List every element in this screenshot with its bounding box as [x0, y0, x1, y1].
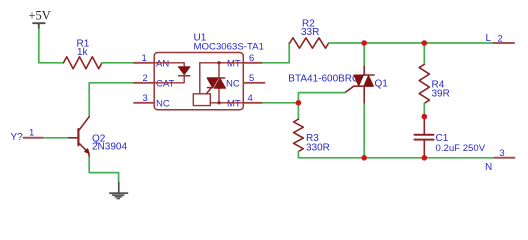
U1 internal left vertical to ZC box [199, 63, 201, 94]
svg-text:AN: AN [156, 58, 169, 69]
node L junction at R4 [422, 40, 428, 46]
wire Q1 MT1 to bottom rail [363, 104, 365, 158]
svg-text:1: 1 [29, 128, 34, 139]
transistor Q2 [69, 117, 89, 158]
wire top rail to R4 [423, 43, 425, 64]
svg-text:3: 3 [499, 148, 504, 159]
wire junction to R3 [297, 103, 299, 119]
svg-text:1k: 1k [77, 47, 89, 58]
U1 internal junction bottom [217, 101, 220, 104]
svg-text:33R: 33R [301, 27, 319, 38]
svg-text:2: 2 [143, 73, 148, 84]
wire R2 to L port (top rail) [329, 42, 494, 44]
wire U1 pin 2 to Q2 collector [89, 83, 134, 117]
resistor R3 [294, 119, 304, 151]
zero-cross box inside U1 [193, 94, 210, 106]
resistor R1 [64, 57, 103, 69]
node N junction at Q1 [361, 155, 367, 161]
wire Y? to Q2 base [43, 137, 69, 139]
port Y? [24, 137, 44, 139]
node junction R4/C1 [422, 114, 428, 120]
svg-text:MT: MT [227, 58, 241, 69]
svg-text:330R: 330R [306, 142, 330, 153]
svg-text:5: 5 [249, 73, 254, 84]
U1 internal junction top [217, 61, 220, 64]
pin 3 stub [134, 102, 154, 104]
wire U1 pin4 to junction [263, 102, 299, 104]
svg-text:3: 3 [143, 93, 148, 104]
pin 4 stub [243, 102, 262, 104]
triac inside U1 [206, 63, 225, 103]
wire top rail to Q1 MT2 [363, 43, 365, 66]
wire R3 to bottom rail [298, 151, 363, 157]
svg-text:39R: 39R [432, 89, 450, 100]
svg-text:6: 6 [249, 53, 254, 64]
port N [494, 157, 514, 159]
port L [493, 42, 514, 44]
pin 6 stub [243, 62, 262, 64]
svg-text:4: 4 [248, 93, 253, 104]
bottom rail wire [363, 157, 494, 159]
svg-text:Y?: Y? [11, 132, 24, 143]
U1 internal top rail [200, 62, 244, 64]
ground [109, 182, 128, 200]
wire Q1 gate to junction [298, 93, 345, 103]
svg-text:Q1: Q1 [375, 79, 389, 90]
power +5V [29, 9, 51, 30]
svg-text:NC: NC [156, 98, 170, 109]
pin 2 stub [134, 82, 155, 84]
svg-text:1: 1 [142, 53, 147, 64]
optocoupler U1 box [154, 53, 243, 110]
svg-text:L: L [486, 33, 492, 44]
U1 internal bottom rail [210, 102, 243, 104]
node junction gate/R3 [296, 100, 302, 106]
node N junction at C1 [422, 155, 428, 161]
resistor R4 [419, 64, 429, 103]
triac Q1 [345, 66, 374, 104]
svg-text:CAT: CAT [156, 78, 174, 89]
svg-text:NC: NC [226, 78, 240, 89]
svg-text:+5V: +5V [29, 9, 51, 23]
svg-text:MOC3063S-TA1: MOC3063S-TA1 [194, 42, 264, 53]
pin 5 stub [243, 82, 264, 84]
wire Q2 emitter to ground [89, 157, 118, 182]
svg-text:2: 2 [498, 34, 503, 45]
pin 1 stub [134, 62, 155, 64]
LED inside U1 [154, 63, 184, 83]
wire +5V to R1 [39, 29, 64, 63]
svg-text:0.2uF 250V: 0.2uF 250V [436, 143, 486, 154]
svg-text:MT: MT [227, 98, 241, 109]
svg-text:BTA41-600BRG: BTA41-600BRG [288, 74, 360, 85]
svg-text:N: N [485, 162, 492, 173]
svg-text:2N3904: 2N3904 [92, 142, 127, 153]
wire R1 to U1 pin 1 [102, 62, 134, 64]
node L junction at triac [361, 40, 367, 46]
capacitor C1 [415, 120, 434, 158]
wire R4 to C1 [423, 103, 425, 120]
wire pin6 to R2 [263, 43, 290, 63]
resistor R2 [290, 38, 329, 48]
